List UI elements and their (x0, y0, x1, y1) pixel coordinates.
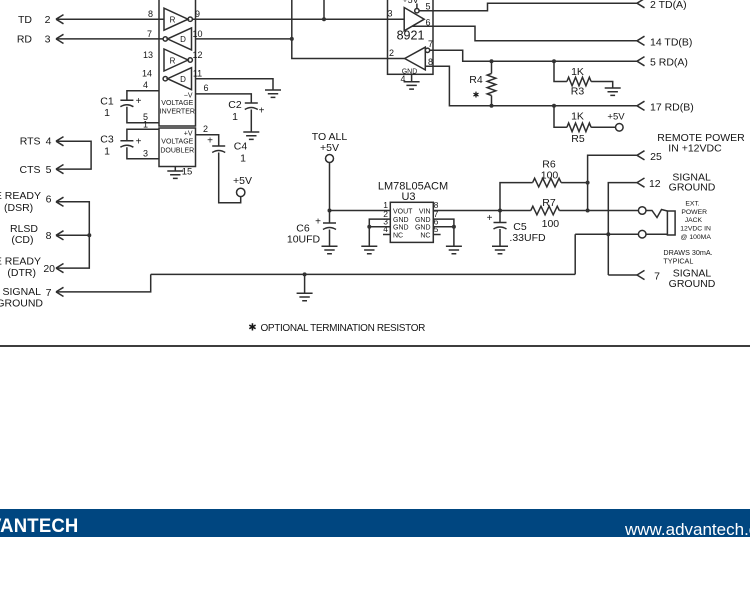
wire U2 pin6 to TD(B) (412, 26, 637, 41)
svg-text:14 TD(B): 14 TD(B) (650, 36, 692, 48)
svg-text:TD: TD (18, 14, 32, 26)
svg-text:2 TD(A): 2 TD(A) (650, 0, 687, 11)
ground (C2) (243, 132, 259, 139)
wire RTS-CTS loopback (56, 141, 91, 169)
svg-text:6: 6 (46, 193, 52, 205)
connector pin 7 SIGNAL GROUND (left) (0, 286, 64, 309)
svg-text:8: 8 (428, 57, 433, 67)
svg-text:(CD): (CD) (11, 234, 33, 246)
svg-text:C5: C5 (513, 221, 527, 233)
svg-text:7: 7 (147, 29, 152, 39)
svg-text:17 RD(B): 17 RD(B) (650, 101, 694, 113)
wire to pin 25 (586, 155, 637, 210)
svg-text:+5V: +5V (233, 175, 252, 187)
svg-text:20: 20 (43, 263, 55, 275)
svg-text:+: + (259, 106, 265, 117)
svg-text:5: 5 (434, 224, 439, 234)
logo ANTECH (ADVANTECH cut at left) (0, 515, 79, 538)
svg-text:DOUBLER: DOUBLER (160, 148, 194, 155)
svg-text:10: 10 (192, 29, 202, 39)
svg-text:+: + (136, 96, 142, 107)
wire jack sleeve line (575, 234, 638, 274)
svg-text:2: 2 (45, 14, 51, 26)
svg-text:15: 15 (182, 167, 193, 178)
svg-text:25: 25 (650, 151, 662, 163)
svg-text:10UFD: 10UFD (287, 234, 321, 246)
wire U1 pin11 to ground (196, 79, 274, 90)
svg-text:4: 4 (143, 80, 148, 90)
svg-text:100: 100 (541, 170, 559, 182)
IC U2 8921 (388, 0, 434, 74)
connector pin 2 TD(A) (637, 0, 687, 11)
svg-text:8: 8 (46, 230, 52, 242)
IC U1 lower section (voltage doubler) (159, 128, 196, 167)
svg-text:5 RD(A): 5 RD(A) (650, 57, 688, 69)
wire U2 pin7 to RD(A) (430, 50, 637, 63)
url www.advantech.com (cut at right) (625, 520, 750, 540)
svg-text:GND: GND (393, 225, 409, 232)
wire U3 pin1 VOUT to +5V rail (330, 210, 391, 212)
svg-text:C4: C4 (234, 141, 248, 153)
terminal TO ALL +5V (312, 131, 348, 213)
svg-text:GND: GND (415, 225, 431, 232)
svg-text:11: 11 (193, 69, 202, 79)
svg-text:12: 12 (192, 50, 202, 60)
svg-text:1K: 1K (571, 111, 584, 123)
svg-text:CTS: CTS (20, 164, 41, 176)
svg-text:GROUND: GROUND (669, 278, 716, 290)
connector pin 12 SIGNAL GROUND (637, 171, 716, 193)
connector pin 8 (CD) (10, 223, 64, 246)
IC U1 upper section (drivers + voltage inverter) (159, 0, 196, 126)
svg-text:GROUND: GROUND (0, 298, 43, 310)
wire U1 pin2 (+V) to C4 (196, 124, 219, 146)
svg-text:NC: NC (420, 232, 430, 239)
svg-text:2: 2 (203, 124, 208, 134)
wire U1 pin4 (127, 80, 159, 100)
svg-text:+: + (207, 136, 213, 147)
svg-text:1: 1 (143, 119, 148, 129)
svg-text:✱: ✱ (473, 91, 480, 100)
svg-text:R: R (170, 56, 176, 65)
svg-text:D: D (180, 75, 186, 84)
driver U2a (pins 3,5,6) (404, 2, 430, 31)
wire C1 to U1 pin5 (127, 107, 159, 123)
svg-text:C6: C6 (296, 223, 310, 235)
ground (U3 left) (361, 246, 377, 253)
capacitor C4 (207, 136, 247, 165)
resistor R7 (531, 197, 560, 230)
connector pin 6 (DSR) (0, 190, 64, 214)
connector pin 5 RD(A) (637, 57, 688, 69)
buffer D (pins 14-11) (142, 68, 202, 90)
buffer D (pins 7-10) (147, 28, 203, 50)
wire U2 pin8 to RD(B) (425, 66, 637, 108)
resistor R5 (554, 106, 616, 145)
svg-text:4: 4 (383, 224, 388, 234)
terminal +5V (R5) (607, 111, 625, 131)
horizontal divider line (0, 345, 750, 347)
capacitor C1 (100, 95, 141, 119)
wire U3 pin5 NC stub (433, 234, 440, 236)
svg-text:U3: U3 (401, 191, 415, 203)
resistor R3 (554, 61, 613, 97)
power jack J1 (638, 207, 675, 238)
svg-text:5: 5 (46, 164, 52, 176)
svg-text:OPTIONAL TERMINATION RESISTOR: OPTIONAL TERMINATION RESISTOR (261, 323, 426, 334)
wire U1 pin6 (-V) to C2 (196, 83, 252, 103)
connector pin 17 RD(B) (637, 101, 694, 113)
svg-text:TYPICAL: TYPICAL (663, 257, 693, 266)
wire pin12 / jack sleeve vertical (606, 183, 637, 275)
wire TD to R1 input (56, 18, 164, 20)
connector pin 7 SIGNAL GROUND (right) (608, 267, 715, 290)
svg-text:RD: RD (17, 34, 33, 46)
svg-text:12VDC IN: 12VDC IN (680, 226, 711, 233)
footer bar (0, 509, 750, 537)
wire U1 pin9 to U2 pin3 (192, 9, 404, 20)
+5V label (cut at top) (402, 0, 418, 8)
svg-text:GROUND: GROUND (669, 182, 716, 194)
ground (signal ground bus) (297, 293, 313, 300)
svg-text:GND: GND (415, 217, 431, 224)
wire U1 pin1 (127, 119, 159, 140)
svg-text:2: 2 (389, 48, 394, 58)
connector pin TD 2 (18, 14, 64, 26)
wire C3 to U1 pin3 (127, 147, 159, 159)
wire C2 to ground (250, 110, 252, 133)
svg-text:EXT.: EXT. (685, 200, 699, 207)
svg-text:GND: GND (393, 217, 409, 224)
svg-text:C3: C3 (100, 134, 114, 146)
svg-text:1K: 1K (571, 66, 584, 78)
svg-text:R3: R3 (571, 86, 585, 98)
capacitor C3 (100, 134, 141, 158)
resistor R6 (500, 159, 588, 211)
svg-text:8: 8 (148, 9, 153, 19)
svg-text:4: 4 (400, 74, 405, 84)
connector pin 20 (DTR) (0, 255, 64, 279)
svg-text:VOUT: VOUT (393, 208, 413, 215)
wire vertical branch at node on TD line (322, 0, 326, 21)
svg-text:14: 14 (142, 69, 152, 79)
svg-text:+: + (315, 217, 321, 228)
svg-text:C1: C1 (100, 95, 114, 107)
svg-text:12: 12 (649, 178, 661, 190)
ground (U2 pin 4) (404, 82, 420, 89)
buffer R (pins 13-12) (143, 49, 203, 71)
svg-text:7: 7 (428, 39, 433, 49)
svg-text:IN +12VDC: IN +12VDC (668, 143, 722, 155)
ground (C5) (492, 246, 508, 253)
svg-text:SIGNAL: SIGNAL (2, 286, 41, 298)
wire U1 pin10 to U2 pin2 (receiver output) (196, 0, 405, 59)
svg-text:9: 9 (195, 9, 200, 19)
svg-text:100: 100 (542, 218, 560, 230)
terminal +5V (233, 175, 252, 197)
wire U3 pins2,3 to ground (367, 219, 390, 246)
svg-text:C2: C2 (228, 99, 242, 111)
svg-text:+: + (487, 213, 493, 224)
svg-text:6: 6 (203, 83, 208, 93)
svg-text:1: 1 (240, 153, 246, 165)
svg-text:1: 1 (104, 107, 110, 119)
svg-text:+5V: +5V (320, 142, 339, 154)
ground (U3 right) (446, 246, 462, 253)
svg-text:D: D (180, 35, 186, 44)
svg-text:E READY: E READY (0, 190, 41, 202)
regulator U3 LM78L05ACM (378, 181, 448, 243)
wire C4 to +5V terminal (219, 153, 241, 203)
svg-text:+5V: +5V (607, 111, 625, 122)
svg-text:RTS: RTS (20, 136, 41, 148)
svg-text:VOLTAGE: VOLTAGE (161, 139, 193, 146)
capacitor C2 (228, 99, 264, 123)
note: optional termination resistor (248, 323, 425, 334)
connector pin CTS 5 (20, 164, 64, 176)
svg-text:1: 1 (232, 111, 238, 123)
svg-text:NC: NC (393, 232, 403, 239)
ground (R3) (605, 88, 621, 95)
svg-text:JACK: JACK (685, 217, 703, 224)
svg-text:7: 7 (46, 287, 52, 299)
connector pin 14 TD(B) (637, 36, 692, 48)
wire U2 pin4 GND (400, 69, 417, 85)
svg-text:E READY: E READY (0, 255, 41, 267)
wire U3 pin4 NC stub (383, 234, 390, 236)
svg-text:4: 4 (46, 136, 52, 148)
wire signal ground left (56, 274, 151, 292)
wire U1 pin15 to ground (175, 167, 192, 178)
svg-text:−V: −V (184, 93, 193, 100)
svg-text:(DTR): (DTR) (7, 267, 36, 279)
wire signal ground bus (151, 272, 576, 293)
ground (C6) (322, 246, 338, 253)
connector pin 25 REMOTE POWER (637, 132, 745, 163)
svg-text:13: 13 (143, 50, 153, 60)
svg-text:R7: R7 (542, 197, 556, 209)
svg-text:7: 7 (654, 271, 660, 283)
svg-text:1: 1 (104, 146, 110, 158)
capacitor C5 (487, 211, 546, 247)
svg-text:INVERTER: INVERTER (160, 109, 195, 116)
svg-text:+: + (136, 137, 142, 148)
wire RD from D1 output (56, 38, 163, 40)
connector pin RD 3 (17, 34, 64, 46)
svg-text:3: 3 (45, 34, 51, 46)
wire U2 pin5 to TD(A) (419, 3, 637, 11)
svg-text:VOLTAGE: VOLTAGE (161, 100, 193, 107)
resistor R4 (469, 61, 496, 106)
wire U3 pin8 VIN rail (433, 209, 638, 213)
svg-text:(DSR): (DSR) (4, 202, 33, 214)
buffer R (pins 8-9) (148, 8, 200, 30)
wire U3 pins7,6 to ground (433, 219, 456, 246)
label DRAWS 30mA TYPICAL (663, 248, 712, 266)
svg-text:8921: 8921 (397, 29, 425, 43)
ground (U1 pin 11) (265, 90, 281, 97)
receiver U2b (pins 2,7,8) (405, 39, 433, 70)
label EXT POWER JACK (680, 200, 711, 241)
svg-text:+V: +V (184, 130, 193, 137)
connector pin RTS 4 (20, 136, 64, 148)
svg-text:R5: R5 (571, 133, 585, 145)
svg-text:@ 100MA: @ 100MA (681, 234, 712, 241)
svg-text:✱: ✱ (248, 323, 256, 334)
svg-text:.33UFD: .33UFD (509, 232, 546, 244)
svg-text:R: R (170, 16, 176, 25)
svg-text:3: 3 (143, 149, 148, 159)
svg-text:VIN: VIN (419, 208, 431, 215)
capacitor C6 (287, 211, 336, 247)
svg-text:POWER: POWER (681, 209, 707, 216)
ground (U1 pin 15) (167, 171, 183, 178)
wire DSR/CD/DTR loopback (56, 202, 91, 268)
svg-text:R4: R4 (469, 74, 483, 86)
